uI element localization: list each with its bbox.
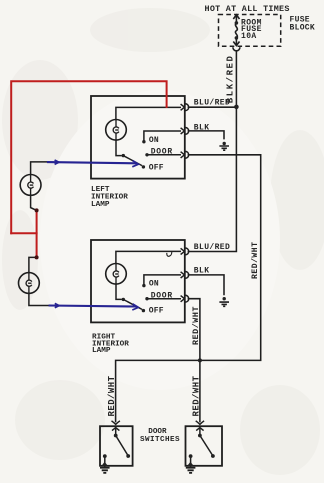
svg-text:HOT AT ALL TIMES: HOT AT ALL TIMES (205, 4, 290, 14)
svg-text:LAMP: LAMP (92, 347, 111, 355)
svg-text:OFF: OFF (149, 306, 164, 315)
svg-text:BLK: BLK (194, 266, 210, 275)
svg-text:ON: ON (149, 136, 159, 145)
svg-text:DOOR: DOOR (151, 148, 173, 157)
svg-text:BLOCK: BLOCK (290, 24, 316, 33)
svg-text:BLU/RED: BLU/RED (194, 243, 230, 252)
svg-text:RED/WHT: RED/WHT (191, 306, 201, 345)
svg-text:LAMP: LAMP (91, 201, 110, 209)
svg-text:SWITCHES: SWITCHES (140, 436, 180, 444)
svg-text:DOOR: DOOR (151, 292, 173, 301)
svg-text:10A: 10A (241, 32, 257, 41)
svg-text:RED/WHT: RED/WHT (192, 375, 202, 416)
svg-text:OFF: OFF (149, 164, 164, 173)
svg-text:RED/WHT: RED/WHT (251, 242, 260, 280)
svg-text:BLK: BLK (194, 123, 210, 132)
svg-text:ON: ON (149, 280, 159, 289)
svg-text:BLK/RED: BLK/RED (226, 55, 236, 104)
svg-text:RED/WHT: RED/WHT (107, 375, 117, 416)
